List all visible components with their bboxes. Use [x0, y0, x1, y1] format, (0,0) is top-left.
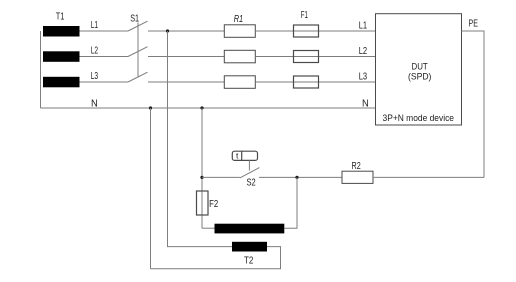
svg-text:L3: L3 — [91, 71, 99, 82]
switch S1 label — [130, 14, 139, 25]
wire S2 branch from junction to switch — [202, 176, 240, 178]
junction dot S2 branch — [200, 176, 203, 179]
resistor R1 pole2 — [224, 50, 255, 63]
svg-text:F1: F1 — [301, 10, 308, 21]
fuse F1 pole2 — [294, 51, 319, 63]
node L2 label (at DUT) — [359, 46, 368, 57]
svg-text:F2: F2 — [209, 199, 218, 210]
svg-text:T2: T2 — [244, 255, 254, 266]
svg-text:t: t — [236, 151, 239, 161]
wire PE from DUT to right — [462, 31, 485, 177]
svg-text:(SPD): (SPD) — [408, 72, 431, 83]
wire bottom return — [151, 247, 281, 269]
node N label (at DUT) — [362, 98, 369, 109]
node L2 label (left) — [91, 45, 99, 56]
resistor R2 — [342, 171, 373, 183]
resistor R1 label — [234, 14, 244, 25]
wire T2 primary right to junction — [284, 177, 297, 228]
wire L1 tap vertical down to T2 secondary — [168, 31, 233, 247]
svg-text:R1: R1 — [234, 14, 244, 25]
wire t box stem to S2 blade — [248, 160, 250, 170]
node L1 label (at DUT) — [359, 20, 368, 31]
fuse F1 label — [301, 10, 308, 21]
node N label (left) — [91, 99, 98, 110]
svg-text:S2: S2 — [247, 177, 257, 188]
svg-text:PE: PE — [469, 19, 479, 30]
wire N tap left vertical down to bottom return — [150, 108, 152, 269]
wire S2 to junction — [259, 176, 342, 178]
resistor R1 pole3 — [224, 76, 255, 89]
fuse F1 pole3 — [294, 76, 319, 88]
junction dot N tap left — [149, 106, 152, 109]
wire F2 to T2 primary — [202, 227, 215, 229]
transformer T1 winding bars — [43, 26, 80, 87]
svg-text:L2: L2 — [359, 46, 368, 57]
switch S1 pole 2 blade — [128, 47, 148, 57]
wire L1 from R1 to DUT — [255, 30, 375, 32]
switch S1 pole 1 blade — [128, 21, 148, 31]
node L3 label (at DUT) — [359, 71, 368, 82]
wire L2 from S1 to R1 — [148, 56, 225, 58]
junction dot T2 primary branch — [295, 176, 298, 179]
node PE label — [469, 19, 479, 30]
node L3 label (left) — [91, 71, 99, 82]
switch S2 blade — [240, 168, 260, 178]
wire R2 to PE — [373, 176, 484, 178]
node L1 label (left) — [91, 20, 99, 31]
svg-text:R2: R2 — [352, 161, 362, 172]
wire N from T1 to DUT — [41, 107, 376, 109]
svg-text:L1: L1 — [91, 20, 99, 31]
fuse F2 — [197, 191, 209, 215]
wire N tap right vertical down through F2 — [201, 108, 203, 228]
svg-text:L3: L3 — [359, 71, 368, 82]
wire L2 from T1 to S1 — [80, 56, 129, 58]
transformer T2 label — [244, 255, 254, 266]
resistor R2 label — [352, 161, 362, 172]
switch S2 label — [247, 177, 257, 188]
switch S1 pole 3 blade — [128, 72, 148, 82]
fuse F2 label — [209, 199, 218, 210]
svg-text:3P+N mode device: 3P+N mode device — [383, 113, 455, 124]
svg-text:T1: T1 — [56, 11, 65, 22]
wire L2 from R1 to DUT — [255, 56, 375, 58]
timer contact t box — [232, 151, 257, 161]
svg-text:N: N — [362, 98, 369, 109]
switch S1 linkage — [137, 23, 139, 77]
DUT (SPD) box U1 — [376, 14, 462, 125]
wire L1 from T1 to S1 — [80, 30, 129, 32]
transformer T2 primary bar — [215, 224, 285, 234]
svg-text:L2: L2 — [91, 45, 99, 56]
transformer T2 secondary bar — [232, 242, 267, 252]
wire L3 from R1 to DUT — [255, 81, 375, 83]
resistor R1 pole1 — [224, 25, 255, 38]
wire L3 from S1 to R1 — [148, 81, 225, 83]
wire T1 left bus vertical — [40, 31, 42, 108]
svg-text:L1: L1 — [359, 20, 368, 31]
wire L1 from S1 to R1 — [148, 30, 225, 32]
wire L3 from T1 to S1 — [80, 81, 129, 83]
junction dot L1 tap — [166, 29, 169, 32]
fuse F1 pole1 — [294, 25, 319, 37]
transformer T1 label — [56, 11, 65, 22]
junction dot N tap right — [200, 106, 203, 109]
